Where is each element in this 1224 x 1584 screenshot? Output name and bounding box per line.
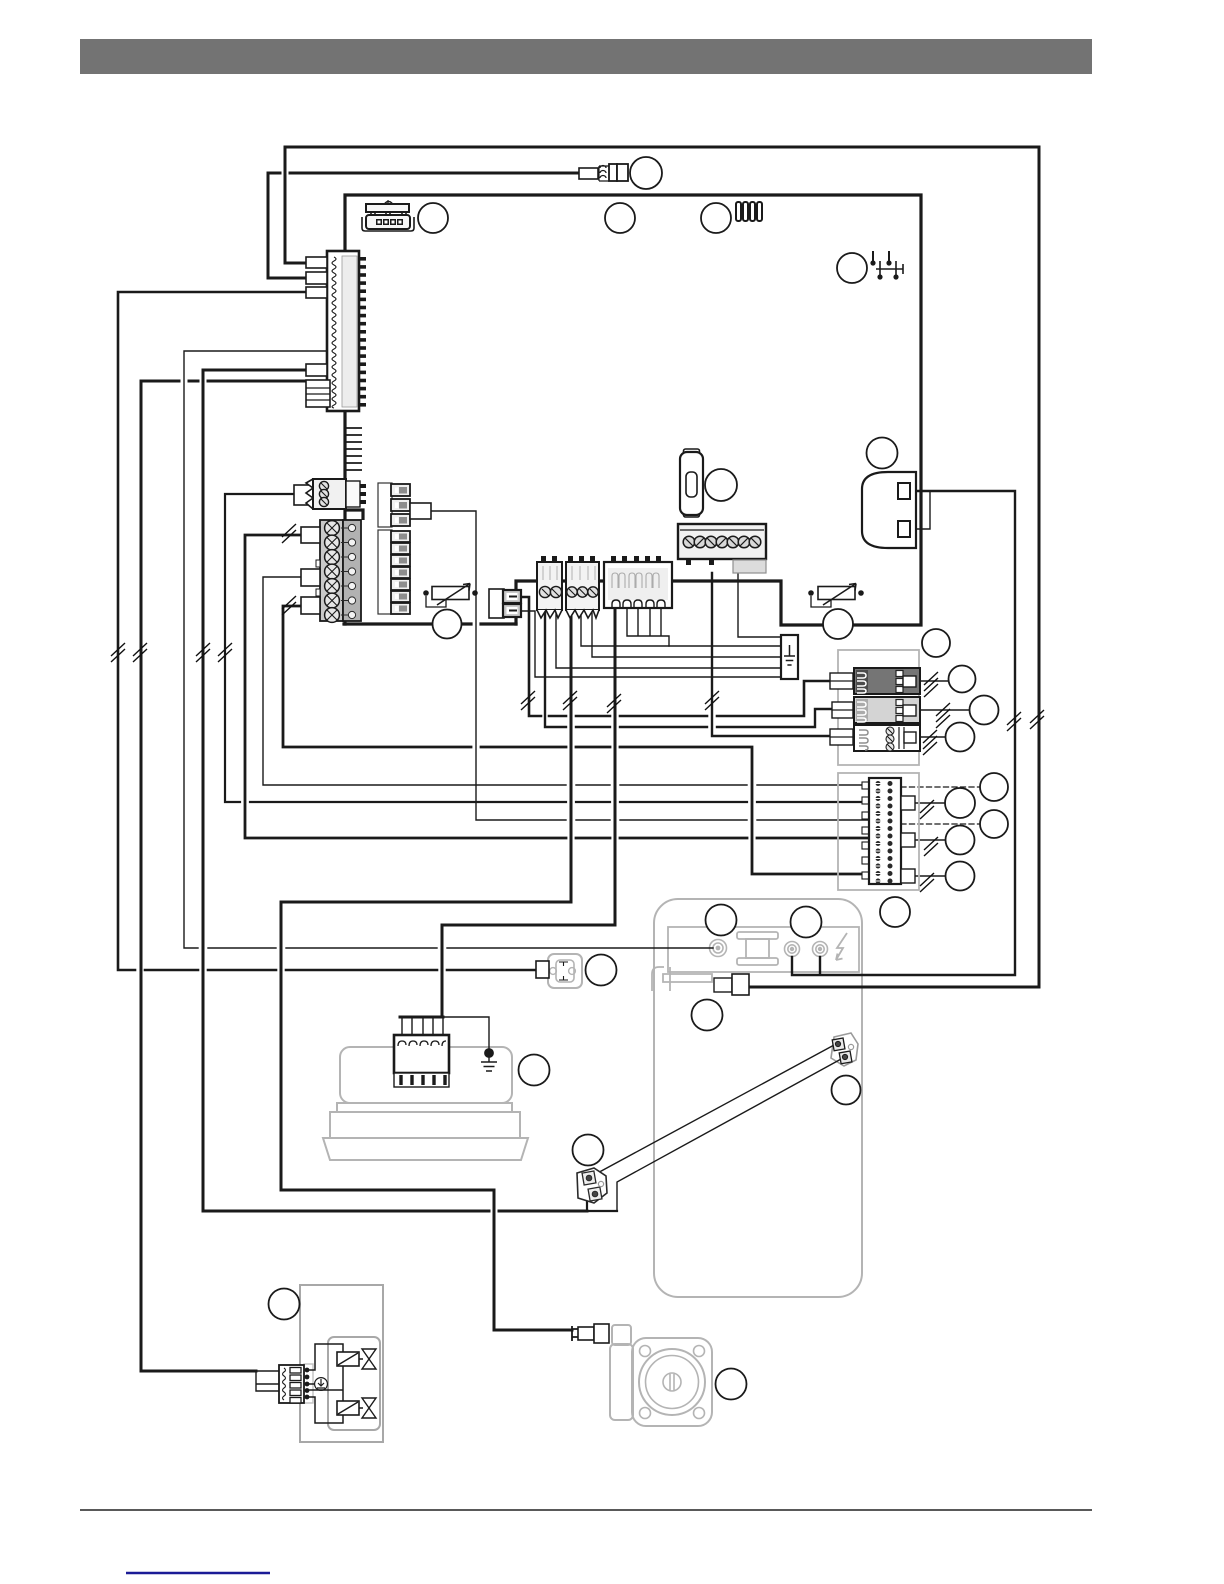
relay 2 light — [854, 697, 920, 723]
hash marks terminal stubs — [282, 524, 296, 543]
NTC symbol R1 — [423, 584, 478, 608]
connector 2pin X6 — [489, 589, 521, 618]
wire relay1 output — [916, 680, 948, 682]
4pin service connector CN top — [362, 200, 414, 231]
callout circle fan — [519, 1055, 550, 1086]
terminal stub 1 — [301, 527, 320, 543]
pump corner bolts — [640, 1346, 705, 1419]
callout circle strip s2 — [946, 826, 975, 855]
gas valve solenoid 2 — [337, 1401, 359, 1415]
wire terminal stub3 to strip row5 — [283, 606, 869, 874]
callout circle strip s1 — [945, 788, 975, 818]
X1 wire stub B — [306, 272, 327, 284]
callout circle boiler left — [706, 905, 737, 936]
wire CN plug to terminal strip row2 — [225, 494, 869, 802]
callout circle enclosure top — [922, 629, 950, 657]
X1 wire stub A — [306, 257, 327, 268]
earth collector bar — [781, 635, 798, 679]
relay strip group 1 — [378, 483, 410, 527]
callout circle strip s3 — [946, 862, 975, 891]
relay strip group 2 — [378, 530, 410, 614]
strip stub row4 — [901, 833, 915, 847]
ignition coil terminal 1 — [710, 940, 727, 957]
connector C 5pin fan — [604, 556, 672, 608]
gas valve seat 2 — [359, 1398, 376, 1418]
wire spark leads diagonal 2 — [617, 1058, 843, 1211]
callout circle switch — [837, 253, 867, 283]
ignition transformer bobbin — [737, 932, 778, 965]
wire relay strip stub branch — [431, 511, 869, 820]
callout circle strip d2 — [980, 810, 1008, 838]
wire strip output solid 3 — [915, 875, 945, 877]
wire strip output solid 1 — [915, 802, 945, 804]
pump inner circle — [646, 1356, 699, 1409]
flame bracket terminal — [714, 974, 749, 995]
relay stub 3 — [830, 729, 859, 745]
callout circle flame plug — [586, 955, 617, 986]
ignition coil terminal 3 — [813, 942, 828, 957]
X1 wire stub E — [306, 364, 327, 376]
hash marks right risers — [1007, 712, 1021, 731]
wire terminal X3 live dropper — [712, 573, 830, 736]
wire terminal stub2 to strip row1 thin — [263, 577, 869, 785]
wire strip dashed link 2 — [901, 823, 979, 825]
callout circle below strip — [880, 897, 910, 927]
ignition panel on boiler — [668, 927, 859, 972]
switch symbol S1 — [870, 251, 903, 280]
wire terminal X3 earth dropper — [738, 573, 781, 637]
wire flame sensor plug feed — [118, 292, 537, 970]
callout circle relay3 — [946, 723, 975, 752]
hash marks left risers — [111, 643, 125, 662]
gas valve seat 1 — [359, 1349, 376, 1369]
boiler body outline — [654, 899, 862, 1297]
wire ignition coil feed thin — [184, 351, 713, 948]
callout circle igniter — [832, 1076, 861, 1105]
wire connector B pin2 to earth bar — [581, 610, 781, 646]
pump body — [632, 1338, 712, 1426]
fan base — [330, 1112, 520, 1138]
igniter terminal screws — [832, 1038, 853, 1064]
wire connector A pin2 to earth bar — [556, 610, 781, 668]
callout circle gas valve — [269, 1289, 300, 1320]
igniter terminal block on boiler — [831, 1033, 858, 1066]
callout circle boiler mid — [692, 1000, 723, 1031]
relay enclosure upper — [838, 650, 919, 765]
wire spark leads diagonal 1 — [592, 1044, 836, 1176]
flame sensor plug screws — [550, 968, 576, 975]
hash marks mid droppers — [521, 691, 535, 710]
connector A 2pole — [537, 556, 562, 618]
header bar — [80, 39, 1092, 74]
lower connector enclosure — [838, 773, 919, 890]
callout circle relay2 — [970, 696, 999, 725]
relay 1 dark — [854, 668, 920, 694]
screw terminal X3 7way — [678, 524, 766, 573]
wire ignition coil to mains plug — [792, 491, 1015, 975]
edge connector X1 — [327, 251, 366, 411]
wire relay3 output — [916, 736, 946, 738]
pin ladder below X1 — [346, 428, 362, 470]
outdoor sensor plug — [579, 164, 628, 181]
ignition coil terminal 2 — [785, 942, 800, 957]
wire electrode stub — [587, 1197, 617, 1211]
fan bottom flange — [323, 1138, 528, 1160]
callout circle item sensor — [630, 157, 662, 189]
wire gas valve internal solenoid 1 — [307, 1344, 343, 1423]
terminal stub 2 — [301, 569, 320, 586]
callout circle relay1 — [949, 666, 976, 693]
board edge jog to terminal — [345, 510, 363, 520]
X1 wire stub C — [306, 287, 327, 298]
relay stub 2 — [832, 702, 859, 718]
wire connector B pin3 to earth bar — [592, 610, 781, 657]
callout circle mains plug — [867, 438, 898, 469]
spark lightning symbol — [836, 933, 847, 960]
wire fan gather bus — [400, 1016, 443, 1019]
relay 3 white — [854, 725, 920, 751]
pump top conduit — [612, 1325, 631, 1345]
gas valve earth symbol — [315, 1378, 328, 1391]
wire 5pin connector drops to bus — [627, 608, 669, 646]
flame electrode bracket — [652, 967, 712, 991]
hash marks relay outputs — [924, 672, 938, 697]
gas valve connector backing — [304, 1364, 313, 1403]
callout circle board jumper — [701, 203, 731, 233]
callout circle pump — [716, 1369, 747, 1400]
callout circle board conn — [418, 203, 448, 233]
footer rule — [80, 1509, 1092, 1511]
CN plug 3pin with screws — [306, 479, 366, 509]
wire strip dashed link 1 — [901, 786, 979, 788]
mains plug X5 — [862, 472, 916, 548]
fan earth point — [481, 1049, 497, 1071]
flame plug stub — [536, 961, 549, 978]
callout circle electrode — [573, 1135, 604, 1166]
wire spark electrode feed — [203, 370, 587, 1211]
spark electrode block — [577, 1168, 607, 1203]
board bottom bus wire — [344, 622, 516, 625]
wire gas valve feed — [141, 381, 306, 1371]
wire fan earth lead — [443, 1017, 489, 1050]
wire connector B pin1 to pump — [281, 610, 572, 1330]
wire relay2 output — [916, 709, 970, 711]
wire outdoor sensor loop — [268, 173, 579, 278]
pump centre screw — [663, 1373, 681, 1391]
relay strip stub — [410, 503, 431, 519]
callout circle board mid — [605, 203, 635, 233]
callout circle fuse — [705, 469, 737, 501]
fan step — [337, 1103, 512, 1112]
pump plug — [572, 1324, 609, 1343]
callout circle boiler right — [791, 907, 822, 938]
gas valve connector — [279, 1365, 309, 1403]
terminal stub 3 — [301, 597, 320, 614]
wire fan connector feed — [442, 608, 615, 1017]
wire terminal stub1 to strip row4 — [245, 535, 869, 838]
callout circle bus left — [433, 610, 462, 639]
strip stub row2 — [901, 796, 915, 810]
callout circle strip d1 — [980, 773, 1008, 801]
wire gas valve fanout — [256, 1371, 279, 1391]
callout circle bus right — [823, 609, 853, 639]
pin strip X20 — [862, 778, 901, 884]
NTC symbol R2 — [808, 584, 864, 608]
footer blue link line — [126, 1572, 270, 1574]
fuse holder F1 — [680, 449, 703, 517]
strip stub row5 — [901, 869, 915, 883]
wire mains plug lower pin loop — [909, 491, 930, 529]
pump left housing — [610, 1344, 633, 1420]
jumper header J1 — [736, 202, 762, 221]
CN plug 3pin stub — [294, 485, 313, 505]
wire strip output solid 2 — [915, 839, 945, 841]
wire 2pin connector pin2 to earth bar — [520, 611, 781, 677]
connector B 3pole — [566, 556, 599, 618]
flame sensor plug body — [548, 954, 582, 988]
wire loop X1 pin1 to flame electrode lead — [285, 147, 1039, 987]
fan connector plug — [394, 1035, 449, 1087]
fan assembly body — [340, 1047, 512, 1103]
flame sensor plug inner — [556, 960, 574, 982]
screw terminal block 7pos — [316, 520, 361, 622]
gas valve enclosure — [300, 1285, 383, 1442]
hash marks strip outputs — [920, 800, 934, 819]
relay stub 1 — [830, 673, 859, 689]
flame sensor plug contacts — [559, 962, 568, 980]
gas valve solenoid 1 — [337, 1352, 359, 1366]
gas valve inner block — [328, 1337, 380, 1430]
wire fan pin drops — [402, 1017, 443, 1035]
wire 2pin connector pin1 to relay1 — [520, 597, 830, 716]
X1 wire stub block F — [306, 380, 330, 407]
pump face circle — [639, 1349, 705, 1415]
wire connector A pin1 to relay2 — [545, 610, 832, 727]
controller board outline — [345, 195, 921, 625]
